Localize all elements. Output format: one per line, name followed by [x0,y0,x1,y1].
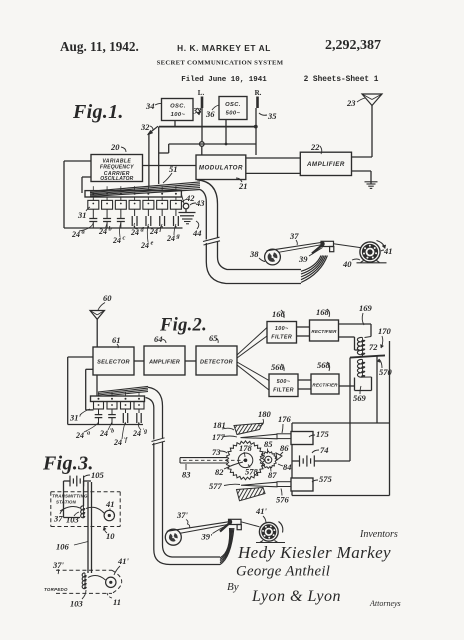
svg-text:100~: 100~ [171,112,186,118]
svg-text:MODULATOR: MODULATOR [199,165,243,172]
svg-text:32: 32 [140,122,150,132]
svg-text:37: 37 [53,514,63,524]
svg-text:George Antheil: George Antheil [236,564,330,580]
svg-text:24: 24 [140,241,149,250]
svg-text:R.: R. [255,89,262,97]
svg-text:39: 39 [298,254,308,264]
svg-text:41: 41 [383,246,393,256]
svg-text:c: c [123,235,126,242]
svg-text:38: 38 [249,249,259,259]
svg-text:103: 103 [66,515,80,525]
svg-text:44: 44 [192,228,202,238]
svg-text:61: 61 [112,335,121,345]
svg-text:34: 34 [145,101,155,111]
svg-text:'a: 'a [86,431,91,437]
svg-text:Filed June 10, 1941: Filed June 10, 1941 [181,76,267,84]
svg-text:106: 106 [56,542,70,552]
svg-text:22: 22 [310,142,320,152]
svg-text:24: 24 [71,230,80,239]
svg-text:TRANSMITTING: TRANSMITTING [52,494,88,499]
svg-text:FILTER: FILTER [273,388,294,394]
svg-text:'b: 'b [110,429,115,435]
svg-text:2 Sheets-Sheet 1: 2 Sheets-Sheet 1 [304,76,379,84]
svg-text:86: 86 [280,443,289,453]
svg-text:37': 37' [176,510,189,520]
svg-text:OSC.: OSC. [170,104,186,110]
svg-text:568: 568 [317,360,331,370]
svg-text:576: 576 [276,495,290,505]
svg-text:65: 65 [209,333,218,343]
svg-text:23: 23 [346,98,356,108]
svg-text:170: 170 [378,326,392,336]
svg-text:L.: L. [198,89,205,97]
svg-text:40: 40 [342,259,352,269]
svg-text:87: 87 [268,470,277,480]
svg-text:24: 24 [75,431,84,440]
svg-text:Attorneys: Attorneys [369,599,401,608]
svg-text:41': 41' [255,506,268,516]
svg-text:569: 569 [353,393,367,403]
svg-text:577: 577 [209,481,223,491]
svg-text:STATION: STATION [56,500,77,505]
svg-text:500~: 500~ [277,379,291,385]
svg-text:178: 178 [239,443,253,453]
svg-text:105: 105 [91,470,105,480]
svg-text:11: 11 [113,597,121,607]
svg-text:176: 176 [278,414,292,424]
svg-text:Lyon & Lyon: Lyon & Lyon [251,588,341,605]
svg-text:Hedy Kiesler Markey: Hedy Kiesler Markey [237,543,391,562]
svg-text:TORPEDO: TORPEDO [44,587,68,592]
svg-text:24: 24 [149,227,158,236]
svg-text:169: 169 [359,303,373,313]
svg-text:39': 39' [201,532,214,542]
svg-text:570: 570 [379,367,393,377]
svg-text:31': 31' [69,413,82,423]
svg-text:Fig.1.: Fig.1. [72,101,124,123]
svg-text:500~: 500~ [226,111,241,117]
svg-text:10: 10 [106,531,115,541]
svg-text:43: 43 [195,198,205,208]
svg-text:74: 74 [320,445,329,455]
svg-text:33: 33 [192,106,202,116]
svg-text:42: 42 [185,193,195,203]
svg-text:35: 35 [267,111,277,121]
svg-text:Fig.2.: Fig.2. [159,316,207,336]
svg-text:24: 24 [132,429,141,438]
svg-text:SECRET COMMUNICATION SYSTEM: SECRET COMMUNICATION SYSTEM [157,60,284,67]
svg-text:AMPLIFIER: AMPLIFIER [148,360,180,366]
svg-text:By: By [227,581,239,593]
svg-text:51: 51 [169,164,178,174]
svg-text:575: 575 [319,474,333,484]
svg-text:73: 73 [212,447,221,457]
svg-text:31: 31 [77,210,87,220]
svg-text:85: 85 [264,439,273,449]
svg-text:37: 37 [289,231,299,241]
svg-text:100~: 100~ [275,326,289,332]
svg-text:OSCILLATOR: OSCILLATOR [100,176,133,182]
svg-text:83: 83 [182,470,191,480]
svg-text:DETECTOR: DETECTOR [200,360,233,366]
svg-text:24: 24 [166,234,175,243]
svg-text:24: 24 [113,438,122,447]
svg-text:82: 82 [215,467,224,477]
svg-text:24: 24 [99,429,108,438]
svg-text:Inventors: Inventors [359,529,398,540]
svg-text:VARIABLE: VARIABLE [102,158,131,164]
svg-text:RECTIFIER: RECTIFIER [311,329,337,334]
svg-text:41': 41' [117,556,130,566]
svg-text:Aug. 11, 1942.: Aug. 11, 1942. [60,39,139,54]
svg-text:175: 175 [316,429,330,439]
svg-text:20: 20 [110,142,120,152]
svg-text:FILTER: FILTER [271,335,292,341]
svg-text:21: 21 [238,181,248,191]
svg-text:60: 60 [103,293,112,303]
svg-text:180: 180 [258,409,272,419]
svg-text:e: e [151,240,154,247]
svg-text:37': 37' [52,560,65,570]
svg-text:SELECTOR: SELECTOR [97,360,130,366]
svg-text:41: 41 [105,499,115,509]
svg-text:103: 103 [70,599,84,609]
svg-text:'g: 'g [143,429,148,435]
svg-text:Fig.3.: Fig.3. [42,453,94,475]
svg-text:OSC.: OSC. [225,102,241,108]
svg-text:FREQUENCY: FREQUENCY [100,165,134,171]
svg-text:72: 72 [369,342,378,352]
svg-text:AMPLIFIER: AMPLIFIER [306,161,345,168]
svg-text:36: 36 [205,109,215,119]
svg-text:578: 578 [245,467,259,477]
svg-text:168: 168 [316,307,330,317]
svg-text:84: 84 [283,462,292,472]
svg-text:566: 566 [271,362,285,372]
svg-text:64: 64 [154,334,163,344]
svg-text:RECTIFIER: RECTIFIER [312,383,338,388]
svg-text:24: 24 [112,236,121,245]
svg-text:2,292,387: 2,292,387 [325,38,381,53]
svg-text:H. K. MARKEY ET AL: H. K. MARKEY ET AL [177,43,271,53]
